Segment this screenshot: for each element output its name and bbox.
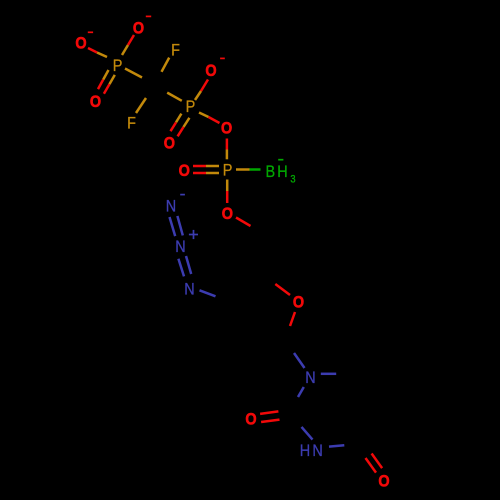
svg-text:3: 3 bbox=[290, 174, 295, 186]
svg-text:O: O bbox=[221, 120, 232, 138]
svg-text:O: O bbox=[75, 35, 86, 53]
svg-text:O: O bbox=[378, 473, 389, 491]
svg-text:O: O bbox=[205, 62, 216, 80]
svg-text:O: O bbox=[245, 411, 256, 429]
svg-text:H: H bbox=[277, 163, 287, 181]
svg-text:P: P bbox=[223, 161, 233, 179]
svg-text:P: P bbox=[113, 57, 123, 75]
svg-text:O: O bbox=[222, 205, 233, 223]
svg-text:O: O bbox=[164, 135, 175, 153]
svg-text:P: P bbox=[186, 98, 196, 116]
svg-text:F: F bbox=[127, 115, 136, 133]
svg-text:N: N bbox=[184, 280, 194, 298]
svg-text:O: O bbox=[133, 20, 144, 38]
svg-text:F: F bbox=[171, 41, 180, 59]
svg-text:N: N bbox=[305, 369, 315, 387]
svg-text:O: O bbox=[179, 162, 190, 180]
svg-text:O: O bbox=[90, 93, 101, 111]
svg-text:B: B bbox=[265, 163, 275, 181]
svg-text:N: N bbox=[312, 442, 322, 460]
svg-text:N: N bbox=[175, 238, 185, 256]
svg-text:H: H bbox=[300, 442, 310, 460]
svg-text:O: O bbox=[293, 294, 304, 312]
svg-text:N: N bbox=[166, 197, 176, 215]
